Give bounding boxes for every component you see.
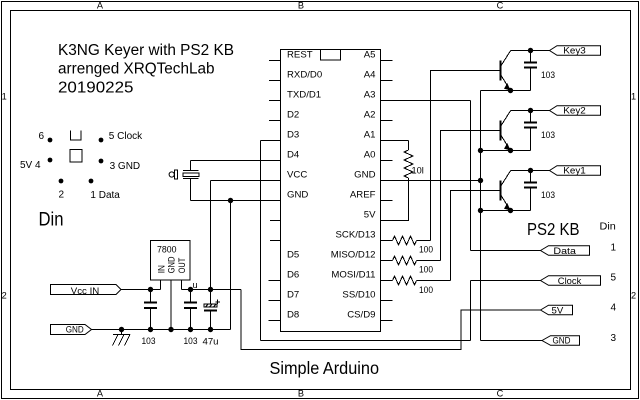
transistor Q2 bbox=[501, 111, 511, 151]
svg-text:1: 1 bbox=[631, 92, 636, 102]
svg-text:MISO/D12: MISO/D12 bbox=[331, 249, 376, 260]
svg-text:1: 1 bbox=[2, 92, 7, 102]
svg-text:D6: D6 bbox=[287, 269, 299, 280]
regulator GND pin wire bbox=[170, 280, 172, 330]
wire R2 riser to Q2 base bbox=[441, 131, 500, 261]
wire A1 row bbox=[381, 140, 409, 142]
junction Q1 emitter bbox=[508, 88, 513, 93]
wire GND drop to rail bbox=[230, 201, 232, 330]
svg-text:GND: GND bbox=[287, 189, 308, 200]
regulator OUT pin wire bbox=[181, 280, 183, 290]
resistor R4 10l vertical bbox=[404, 150, 413, 178]
wire Q2 emitter row bbox=[481, 150, 531, 152]
svg-text:2: 2 bbox=[631, 290, 636, 300]
wire GND row left bbox=[191, 200, 281, 202]
svg-text:u: u bbox=[193, 280, 198, 290]
wire Vcc IN to regulator bbox=[121, 289, 161, 291]
wire clock net riser bbox=[470, 281, 472, 341]
svg-text:REST: REST bbox=[287, 49, 313, 60]
wire VCC row bbox=[211, 180, 281, 182]
wire MOSI/D11 stub bbox=[381, 280, 393, 282]
svg-text:Key3: Key3 bbox=[563, 46, 586, 57]
svg-text:20190225: 20190225 bbox=[58, 79, 134, 96]
svg-text:VCC: VCC bbox=[287, 169, 307, 180]
svg-text:Key2: Key2 bbox=[563, 106, 586, 117]
svg-text:A3: A3 bbox=[364, 89, 376, 100]
svg-text:Simple Arduino: Simple Arduino bbox=[270, 358, 380, 378]
regulator U2 7800 box bbox=[151, 241, 191, 281]
svg-text:4: 4 bbox=[611, 303, 617, 314]
flag Vcc IN bbox=[51, 285, 122, 297]
svg-text:47u: 47u bbox=[203, 337, 219, 347]
junction C3 bottom bbox=[208, 327, 213, 332]
IC left pin stubs bbox=[269, 61, 281, 321]
junction Q1 collector bbox=[528, 48, 533, 53]
wire A3 to Data riser bbox=[470, 101, 472, 251]
transistor Q3 bbox=[501, 171, 511, 211]
svg-text:D4: D4 bbox=[287, 149, 300, 160]
junction GND row at bus bbox=[478, 178, 483, 183]
wire clock net bottom run bbox=[261, 340, 471, 342]
wire MISO/D12 stub bbox=[381, 260, 393, 262]
capacitor C6 103 bbox=[524, 171, 537, 211]
junction ground symbol bbox=[119, 327, 124, 332]
wire VCC drop to 5V rail bbox=[210, 181, 212, 290]
wire clock row to flag bbox=[471, 280, 541, 282]
junction Q2 emitter node bbox=[508, 148, 513, 153]
DIN pin dot 3 bbox=[99, 159, 104, 164]
DIN pin dot 4 bbox=[48, 158, 53, 163]
capacitor C4 103 bbox=[524, 51, 537, 91]
IC right short pin stubs bbox=[381, 61, 393, 321]
svg-text:A0: A0 bbox=[364, 149, 376, 160]
svg-text:6: 6 bbox=[38, 131, 44, 142]
svg-text:Din: Din bbox=[600, 222, 616, 233]
capacitor C5 103 bbox=[524, 111, 537, 151]
svg-text:K3NG Keyer with PS2 KB: K3NG Keyer with PS2 KB bbox=[58, 42, 234, 59]
flag Clock bbox=[541, 276, 601, 287]
DIN pin dot 2 bbox=[59, 179, 64, 184]
DIN pin dot 1 bbox=[89, 179, 94, 184]
flag GND right bbox=[542, 336, 580, 347]
resistor R3 100 bbox=[393, 276, 417, 285]
wire Q1 collector row bbox=[511, 50, 550, 52]
flag Key3 bbox=[550, 46, 601, 57]
piezo speaker icon SP1 bbox=[169, 170, 178, 179]
svg-text:1 Data: 1 Data bbox=[90, 190, 120, 201]
svg-text:Data: Data bbox=[553, 246, 576, 257]
svg-text:A4: A4 bbox=[364, 69, 376, 80]
svg-text:GND: GND bbox=[66, 325, 84, 335]
junction GND row bbox=[228, 198, 233, 203]
svg-text:GND: GND bbox=[553, 336, 571, 347]
junction Q2 collector bbox=[528, 108, 533, 113]
emitter bus wire bbox=[480, 91, 482, 341]
svg-text:D8: D8 bbox=[287, 309, 299, 320]
wire resonator bottom to GND row bbox=[190, 179, 192, 201]
svg-text:5: 5 bbox=[611, 273, 617, 284]
wire A1 down to resistor bbox=[408, 141, 410, 151]
svg-text:A2: A2 bbox=[364, 109, 376, 120]
junction C2 top bbox=[188, 287, 193, 292]
svg-text:B: B bbox=[298, 389, 304, 399]
wire Q3 emitter row bbox=[481, 210, 531, 212]
svg-text:Vcc IN: Vcc IN bbox=[71, 286, 100, 296]
svg-text:B: B bbox=[298, 1, 304, 11]
svg-text:MOSI/D11: MOSI/D11 bbox=[331, 269, 375, 280]
svg-text:5V: 5V bbox=[364, 209, 376, 220]
wire bus to GND flag bbox=[481, 340, 543, 342]
svg-text:103: 103 bbox=[184, 336, 198, 346]
svg-text:D7: D7 bbox=[287, 289, 299, 300]
resistor R2 100 bbox=[393, 256, 417, 265]
svg-text:3: 3 bbox=[611, 333, 617, 344]
svg-text:2: 2 bbox=[59, 190, 65, 201]
svg-text:A: A bbox=[97, 389, 104, 399]
wire R3 to riser bbox=[417, 280, 451, 282]
svg-text:Key1: Key1 bbox=[563, 166, 586, 177]
wire Q2 collector row bbox=[511, 110, 550, 112]
DIN pin dot 5 bbox=[99, 138, 104, 143]
svg-text:TXD/D1: TXD/D1 bbox=[287, 89, 321, 100]
DIN key notch U shape bbox=[70, 130, 81, 140]
DIN pin dot 6 bbox=[48, 138, 53, 143]
svg-text:OUT: OUT bbox=[177, 258, 187, 274]
IC notch bbox=[321, 50, 341, 60]
svg-text:2: 2 bbox=[2, 290, 7, 300]
resonator X1 bbox=[183, 171, 199, 179]
svg-text:C: C bbox=[497, 1, 504, 11]
junction C2 bottom bbox=[188, 327, 193, 332]
flag 5V bbox=[541, 305, 573, 316]
svg-text:D5: D5 bbox=[287, 249, 299, 260]
wire D3 stub row bbox=[261, 140, 281, 142]
junction Q3 emitter node bbox=[508, 208, 513, 213]
junction bus Q2 emitter bbox=[478, 148, 483, 153]
svg-text:3 GND: 3 GND bbox=[110, 161, 141, 172]
junction C3 top / VCC riser bbox=[208, 287, 213, 292]
svg-text:103: 103 bbox=[142, 336, 156, 346]
wire Data row to flag bbox=[471, 250, 541, 252]
wire resistor tail to 5V pin bbox=[381, 178, 409, 221]
svg-text:Din: Din bbox=[39, 210, 64, 231]
transistor Q1 bbox=[501, 51, 511, 91]
svg-text:5V: 5V bbox=[552, 306, 564, 317]
wire GND right row to emitter bus bbox=[381, 180, 481, 182]
capacitor C2 103 bbox=[184, 290, 197, 330]
svg-text:A5: A5 bbox=[364, 49, 376, 60]
resistor R1 100 bbox=[393, 236, 417, 245]
wire D4 row bbox=[191, 160, 281, 162]
svg-text:5 Clock: 5 Clock bbox=[109, 131, 143, 142]
wire SCK/D13 stub bbox=[381, 240, 393, 242]
svg-text:A: A bbox=[97, 1, 104, 11]
wire R2 to riser bbox=[417, 260, 441, 262]
wire D3 bus down bbox=[260, 141, 262, 341]
svg-text:C: C bbox=[497, 389, 504, 399]
wire Q3 collector row bbox=[511, 170, 550, 172]
svg-text:SCK/D13: SCK/D13 bbox=[336, 229, 376, 240]
op-amp U1 Simple Arduino IC body bbox=[281, 50, 381, 332]
flag Key1 bbox=[550, 166, 601, 177]
svg-text:GND: GND bbox=[354, 169, 375, 180]
svg-text:IN: IN bbox=[157, 265, 167, 273]
junction bus Q3 emitter bbox=[478, 208, 483, 213]
junction C1 bottom bbox=[148, 327, 153, 332]
wire 5V rail bottom run bbox=[241, 290, 541, 350]
svg-text:103: 103 bbox=[541, 130, 555, 140]
svg-text:100: 100 bbox=[419, 285, 433, 295]
svg-text:RXD/D0: RXD/D0 bbox=[287, 69, 322, 80]
svg-text:10l: 10l bbox=[412, 166, 424, 176]
wire 5V OUT row bbox=[182, 289, 242, 291]
svg-text:D2: D2 bbox=[287, 109, 299, 120]
svg-text:SS/D10: SS/D10 bbox=[342, 289, 375, 300]
capacitor C3 47u electrolytic bbox=[204, 290, 220, 330]
connector J1 DIN socket pinout drawing bbox=[20, 130, 143, 230]
svg-text:PS2 KB: PS2 KB bbox=[527, 219, 580, 239]
junction Q3 collector bbox=[528, 168, 533, 173]
svg-text:Clock: Clock bbox=[558, 276, 582, 287]
flag Data bbox=[541, 246, 590, 257]
svg-text:CS/D9: CS/D9 bbox=[347, 309, 375, 320]
svg-text:103: 103 bbox=[541, 190, 555, 200]
svg-text:5V 4: 5V 4 bbox=[20, 160, 41, 171]
wire R1 to riser bbox=[417, 240, 431, 242]
regulator IN pin wire bbox=[160, 280, 162, 290]
DIN center square bbox=[70, 150, 82, 162]
svg-text:103: 103 bbox=[541, 70, 555, 80]
capacitor C1 103 bbox=[144, 290, 157, 330]
wire Q1 emitter row bbox=[481, 90, 531, 92]
svg-text:100: 100 bbox=[419, 245, 433, 255]
flag Key2 bbox=[550, 106, 601, 117]
svg-text:AREF: AREF bbox=[350, 189, 376, 200]
wire resonator top to D4 bbox=[190, 161, 192, 171]
ground chassis symbol bbox=[113, 330, 131, 346]
svg-text:1: 1 bbox=[611, 243, 617, 254]
wire A3 row bbox=[381, 100, 471, 102]
junction regulator GND bbox=[168, 327, 173, 332]
svg-text:arrenged XRQTechLab: arrenged XRQTechLab bbox=[58, 61, 215, 78]
flag GND left bbox=[51, 325, 92, 335]
junction Vcc IN cap C1 bbox=[148, 287, 153, 292]
svg-text:100: 100 bbox=[419, 265, 433, 275]
svg-text:7800: 7800 bbox=[157, 245, 177, 255]
svg-text:D3: D3 bbox=[287, 129, 299, 140]
wire R3 riser to Q3 base bbox=[451, 191, 500, 281]
wire R1 riser to Q1 base bbox=[431, 71, 500, 241]
wire GND rail bbox=[92, 329, 231, 331]
svg-text:GND: GND bbox=[167, 256, 177, 273]
svg-text:A1: A1 bbox=[364, 129, 376, 140]
